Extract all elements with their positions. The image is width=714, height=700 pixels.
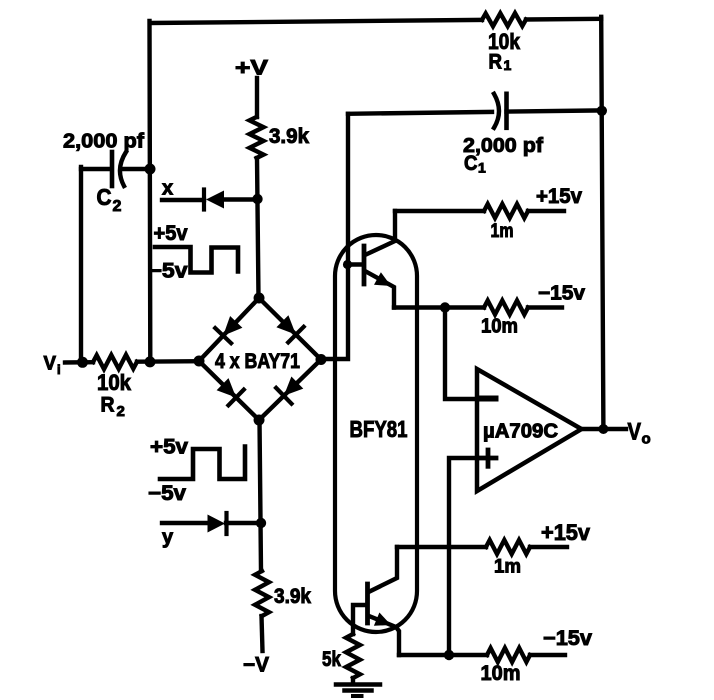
node bridge top vertex <box>254 293 265 304</box>
node C1 right-rail junction <box>597 106 607 116</box>
wire Q2 emitter to resistor <box>399 653 487 657</box>
transistor pair envelope <box>335 235 417 632</box>
op-amp U1 triangle <box>477 369 582 491</box>
wire to +15v lower <box>530 545 567 549</box>
capacitor C1 plates <box>494 94 499 128</box>
wire C2 line right segment <box>123 167 150 171</box>
wire non-inverting input <box>449 458 477 655</box>
svg-text:+15v: +15v <box>536 185 582 208</box>
op-amp non-inverting marker <box>480 456 496 461</box>
wire bridge edge bottom-right <box>259 360 321 421</box>
node Q1 base junction <box>343 260 352 269</box>
node x-diode junction <box>252 194 262 204</box>
svg-text:2,000 pf: 2,000 pf <box>63 130 144 153</box>
transistor Q1 emitter arrow <box>374 272 391 286</box>
wire resistor to -V <box>262 616 263 651</box>
svg-text:+V: +V <box>235 57 268 80</box>
wire Q1 collector to resistor <box>395 209 484 213</box>
node Q1 emitter junction <box>440 302 450 312</box>
resistor 1m upper <box>484 204 528 218</box>
transistor Q2 collector path <box>369 547 398 592</box>
wire C2 line left segment <box>81 167 110 171</box>
wire left rail <box>147 21 152 364</box>
node non-inverting junction <box>444 650 454 660</box>
wire right rail <box>601 17 603 429</box>
diode bridge top-left <box>223 316 242 336</box>
svg-text:BFY81: BFY81 <box>350 416 408 442</box>
svg-text:V: V <box>44 354 57 375</box>
transistor Q2 emitter arrow <box>374 613 391 626</box>
transistor Q1 collector path <box>365 211 395 255</box>
node y-diode junction <box>256 518 266 528</box>
ground symbol <box>336 682 380 687</box>
svg-text:10m: 10m <box>481 662 521 685</box>
transistor Q1 base wire <box>348 262 364 266</box>
wire top feedback right segment <box>526 17 601 22</box>
svg-text:3.9k: 3.9k <box>274 585 311 608</box>
wire C1 line right segment <box>507 110 603 111</box>
svg-text:+5v: +5v <box>154 222 188 245</box>
svg-text:µA709C: µA709C <box>483 421 558 443</box>
diode bridge bottom-left <box>217 378 237 397</box>
resistor 5k <box>346 634 360 678</box>
resistor 10m lower <box>487 648 530 662</box>
diode bridge top-right <box>276 315 296 334</box>
svg-text:−15v: −15v <box>543 627 592 650</box>
svg-text:3.9k: 3.9k <box>269 125 309 148</box>
wire inverting input <box>445 308 476 400</box>
node left-rail bottom junction <box>145 356 156 367</box>
wire x diode to junction <box>224 197 257 201</box>
wire Q1 emitter to resistor <box>394 305 484 309</box>
resistor 1m lower <box>486 540 530 554</box>
svg-text:R: R <box>101 394 115 417</box>
op-amp inverting marker <box>479 396 496 402</box>
svg-text:10m: 10m <box>481 316 518 338</box>
svg-text:5k: 5k <box>322 648 341 671</box>
wire bridge edge top-right <box>259 298 321 360</box>
resistor 10m upper <box>484 301 528 315</box>
wire Vi stub <box>65 360 93 365</box>
svg-text:C: C <box>464 152 478 175</box>
svg-text:o: o <box>642 431 651 448</box>
transistor Q2 emitter path <box>369 616 399 655</box>
resistor 3.9k lower <box>255 571 269 616</box>
capacitor C2 plates <box>110 152 115 186</box>
resistor R2 10k <box>93 355 137 369</box>
svg-text:1: 1 <box>504 57 512 73</box>
resistor 3.9k upper <box>250 117 264 158</box>
svg-text:1m: 1m <box>494 557 521 578</box>
svg-text:1m: 1m <box>491 221 514 242</box>
node Vi-C2 junction <box>77 357 88 368</box>
wire to -15v upper <box>528 305 562 309</box>
diode y pointing right <box>208 515 226 533</box>
diode bridge bottom-right <box>284 377 304 396</box>
svg-text:−V: −V <box>243 654 269 677</box>
wire C1 line left segment <box>348 112 492 114</box>
transistor Q2 base wire <box>353 605 366 634</box>
resistor R1 10k <box>482 13 526 26</box>
wire C1-to-base vertical <box>321 114 348 359</box>
svg-text:+15v: +15v <box>541 520 591 545</box>
wire bridge edge bottom-left <box>199 361 259 420</box>
svg-text:2: 2 <box>117 403 125 420</box>
wire bridge edge top-left <box>199 298 259 361</box>
svg-text:2: 2 <box>113 198 122 215</box>
waveform upper gate signal <box>155 247 238 273</box>
svg-text:x: x <box>162 178 173 200</box>
svg-text:−15v: −15v <box>538 283 586 305</box>
wire x stub <box>162 198 204 202</box>
wire top feedback left segment <box>150 20 482 23</box>
node output junction <box>598 424 608 434</box>
node bridge right vertex <box>316 354 327 365</box>
transistor Q1 base bar <box>362 246 367 284</box>
waveform lower gate signal <box>160 447 245 480</box>
svg-text:−5v: −5v <box>148 482 186 505</box>
transistor Q1 emitter path <box>365 271 394 308</box>
wire y diode to junction <box>226 521 261 525</box>
transistor Q2 base bar <box>365 584 370 623</box>
svg-text:i: i <box>57 362 61 377</box>
svg-text:V: V <box>628 419 642 446</box>
wire 5k to ground <box>351 678 355 684</box>
svg-text:C: C <box>97 184 112 210</box>
wire bridge bottom to resistor <box>260 420 262 571</box>
diode x pointing left <box>206 191 224 209</box>
wire 3.9k to bridge top <box>257 158 259 298</box>
svg-text:y: y <box>162 527 174 549</box>
wire y stub <box>162 521 208 525</box>
wire op-amp output <box>581 427 626 431</box>
wire R2 to bridge <box>137 359 200 364</box>
node C2 left-rail junction <box>145 164 156 175</box>
svg-text:1: 1 <box>478 160 486 176</box>
svg-text:−5v: −5v <box>149 260 188 283</box>
node bridge bottom vertex <box>254 415 265 426</box>
wire to +15v upper <box>528 209 564 213</box>
wire C2 left vertical <box>79 167 83 362</box>
svg-text:R: R <box>489 51 503 74</box>
wire to -15v lower <box>530 653 565 657</box>
svg-text:+5v: +5v <box>150 436 188 459</box>
svg-text:4 x BAY71: 4 x BAY71 <box>215 350 300 373</box>
node bridge left vertex <box>194 356 205 367</box>
wire Q2 collector to resistor <box>397 545 486 549</box>
wire +V lead <box>255 78 259 117</box>
svg-text:10k: 10k <box>97 370 132 395</box>
